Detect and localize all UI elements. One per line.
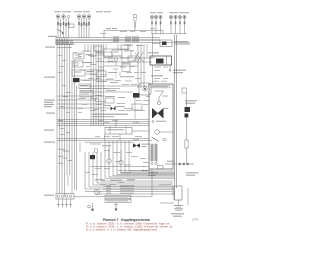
- wire tag p38: [131, 155, 138, 158]
- wire tag p10: [100, 73, 106, 76]
- wire tag p69: [100, 109, 106, 112]
- wire tag p101: [86, 79, 90, 82]
- left margin label 7: [44, 106, 52, 107]
- terminal b2: [155, 162, 157, 164]
- label strip switch: [92, 114, 128, 115]
- label y90: [106, 90, 116, 91]
- wire tag p32: [95, 135, 100, 138]
- label headlamp group left: [54, 11, 61, 12]
- wire mid bus 2: [57, 121, 149, 123]
- sender dashed: [115, 70, 117, 78]
- starter switch: [185, 114, 189, 118]
- wire tag p43: [85, 171, 90, 174]
- brush terminal: [152, 121, 154, 123]
- label tail lamps left: [150, 12, 156, 13]
- wire tag p86: [60, 65, 64, 68]
- fuse dark left: [73, 78, 80, 82]
- label strip switch2: [92, 116, 114, 117]
- wire tag p48: [140, 157, 146, 160]
- wire tag p79: [130, 30, 135, 33]
- wire tag p44: [92, 173, 98, 176]
- tail lamp unit left: [150, 15, 162, 33]
- wire tag p91: [66, 131, 70, 134]
- legend box 1: [105, 195, 131, 198]
- left margin label 4: [44, 100, 55, 101]
- headlamp unit left: [56, 15, 69, 38]
- battery lead terminal 2: [172, 188, 174, 190]
- wire stub 5: [108, 56, 110, 62]
- label instrument A: [124, 50, 134, 51]
- ground left: [88, 203, 95, 212]
- left margin label 11: [44, 195, 54, 196]
- wire tag p70: [154, 66, 161, 69]
- label warning lamp: [120, 57, 130, 58]
- label headlamp group right: [74, 11, 82, 12]
- diagonal harness 2: [134, 52, 139, 61]
- svg-text:1747: 1747: [192, 218, 199, 222]
- horn: [143, 87, 147, 91]
- wire tag p24: [98, 119, 103, 122]
- label above connector: [159, 184, 171, 185]
- small box y45: [121, 45, 128, 50]
- wire corner B4: [97, 152, 173, 183]
- wire corner B1: [85, 152, 173, 189]
- ignition switch: [105, 128, 132, 135]
- battery lead 2: [103, 188, 172, 190]
- starter motor: [185, 107, 191, 112]
- wire tag p64: [118, 109, 125, 112]
- wire tag 4: [63, 151, 69, 152]
- label right of link: [186, 172, 198, 173]
- wire tag p18: [131, 83, 137, 86]
- harness wire L1: [56, 38, 58, 193]
- label y95: [95, 95, 102, 96]
- label light switch: [87, 71, 94, 72]
- wire tag p100: [82, 79, 86, 82]
- wire stub 2: [121, 56, 123, 64]
- resistor bar 2: [155, 144, 157, 161]
- wire y74: [85, 73, 97, 75]
- label battery: [171, 213, 184, 214]
- battery lead tag 4: [106, 192, 111, 195]
- wire tag p97: [86, 65, 90, 68]
- wire ignition out: [132, 130, 149, 132]
- wire tag p57: [113, 68, 118, 71]
- wire tag p83: [62, 59, 66, 62]
- wire tag p14: [115, 79, 121, 82]
- label battery link: [167, 161, 175, 162]
- wire tag p95: [82, 103, 87, 106]
- label brush: [156, 121, 166, 122]
- wire tag p34: [96, 143, 101, 146]
- horn button: [73, 61, 83, 67]
- label y105: [103, 105, 111, 106]
- light switch: [72, 70, 85, 76]
- wire main bus 3: [55, 40, 160, 42]
- label inside box b: [164, 108, 169, 109]
- wire tag p98: [78, 55, 82, 58]
- fuse X dark: [133, 143, 140, 148]
- wire tag p84: [58, 71, 62, 74]
- warning lamp: [114, 58, 117, 61]
- wire tag p49: [143, 161, 149, 164]
- wire tag p37: [126, 151, 132, 154]
- wire corner A7: [129, 141, 175, 171]
- harness wire M4: [98, 44, 100, 126]
- wire tag p26: [112, 119, 118, 122]
- wire y96: [57, 95, 105, 97]
- label y81: [96, 81, 107, 82]
- wire tag p88: [60, 105, 65, 108]
- wire tag p6: [97, 58, 102, 61]
- label instrument lighting: [96, 11, 103, 12]
- wire tag p56: [130, 65, 135, 68]
- left margin label 6: [44, 104, 54, 105]
- label inside box a: [162, 96, 168, 97]
- wire tag p75: [152, 80, 159, 83]
- diagonal harness 1: [135, 53, 144, 62]
- wire tag 2: [58, 156, 63, 157]
- bus tag 2b: [125, 37, 131, 40]
- label fuse X: [142, 144, 149, 145]
- wire stub 13: [146, 44, 148, 58]
- label gauge B: [122, 62, 131, 63]
- wire tag 6: [68, 160, 72, 161]
- link tick 1: [179, 163, 181, 165]
- wire mid bus 3: [57, 123, 149, 125]
- wire main bus 2: [55, 38, 160, 40]
- wire tag p9: [90, 73, 95, 76]
- bus tag 1a: [113, 35, 119, 38]
- wire stub v3: [129, 44, 131, 48]
- harness wire M6: [103, 44, 105, 126]
- wire tag p45: [100, 183, 106, 186]
- small box y98: [105, 98, 114, 103]
- ground right: [114, 203, 118, 212]
- wire tag p59: [134, 71, 139, 74]
- battery lead 1: [103, 186, 172, 188]
- wire center y47: [57, 47, 72, 49]
- wire tag p1: [82, 50, 91, 53]
- left margin label 8: [46, 113, 55, 114]
- wire ignition feed 30/51: [104, 30, 163, 32]
- wire tag p87: [66, 91, 71, 94]
- label wiper ground: [173, 70, 186, 71]
- wire tag p66: [134, 109, 140, 112]
- wire center h1: [80, 85, 149, 87]
- relay small dark: [90, 155, 95, 159]
- wire tag p67: [90, 109, 95, 112]
- wire stub 12: [87, 44, 89, 52]
- wire tag p89: [66, 111, 70, 114]
- svg-text:Fr. o. m. chassinr. 1 t. o. m.: Fr. o. m. chassinr. 1 t. o. m. chassinr.…: [86, 229, 158, 232]
- wire tag p20: [99, 100, 106, 103]
- wire corner A2: [109, 141, 175, 177]
- harness wire L6: [69, 44, 71, 175]
- wire center h2: [80, 88, 120, 90]
- wire tag p53: [143, 103, 148, 106]
- wiper motor box: [150, 56, 172, 65]
- fuel gauge: [119, 150, 123, 165]
- wire stub 3: [115, 61, 117, 66]
- gauge box B: [122, 64, 130, 72]
- wire tag p102: [78, 97, 83, 100]
- wire stub 18: [109, 126, 111, 134]
- wire stub 19: [115, 120, 117, 128]
- wire stub 8: [134, 98, 136, 120]
- wire y52 ext: [95, 51, 104, 53]
- wire battery stub: [160, 202, 174, 204]
- wire low bus 1: [57, 138, 149, 140]
- terminal b1: [151, 162, 153, 164]
- wire center y66: [104, 65, 122, 67]
- wire tag p90: [60, 127, 65, 130]
- small box top-center: [94, 46, 102, 51]
- wire stub 14: [79, 142, 81, 152]
- harness wire L3: [61, 38, 63, 193]
- wire tag p80: [140, 30, 146, 33]
- wire tag p35: [104, 149, 110, 152]
- label y76: [120, 76, 134, 77]
- lighting relay: [160, 40, 172, 47]
- wire tag p78: [120, 30, 127, 33]
- wire tag 8: [63, 96, 68, 97]
- switch circle: [94, 149, 98, 153]
- battery lead terminal 4: [172, 193, 174, 195]
- wire tag p65: [126, 109, 132, 112]
- wire center y108: [57, 107, 110, 109]
- wire tag p76: [161, 80, 167, 83]
- wire tag p85: [62, 84, 66, 87]
- harness wire M1: [90, 44, 92, 126]
- harness wire M3: [95, 44, 97, 126]
- ignition coil feeds: [104, 57, 152, 59]
- wire center y70: [80, 69, 104, 71]
- wire tag p72: [154, 69, 160, 72]
- wire tag p17: [122, 83, 129, 86]
- flasher unit: [133, 14, 137, 30]
- wire corner B3: [93, 152, 173, 185]
- wire low bus 3: [85, 141, 133, 143]
- turn indicator arrow: [57, 29, 64, 35]
- clock: [94, 189, 99, 194]
- wire tag 7: [58, 120, 63, 121]
- wire tag p22: [124, 107, 133, 110]
- wire riser right: [162, 31, 164, 34]
- label lighting relay: [175, 41, 188, 42]
- cutout funnel: [155, 91, 164, 105]
- wire tag p73: [154, 77, 160, 80]
- wire y56: [104, 55, 122, 57]
- wire stub v2: [117, 44, 119, 50]
- spark plugs: [57, 199, 72, 208]
- label ammeter: [102, 145, 111, 146]
- wire main bus 4: [55, 41, 190, 43]
- wire tag p23: [93, 108, 99, 111]
- wire tag p74: [163, 77, 168, 80]
- wire tag p58: [126, 71, 132, 74]
- resistor bar 1: [151, 144, 153, 161]
- harness wire M5: [100, 44, 102, 126]
- field winding bowtie: [152, 108, 164, 119]
- wire tag p42: [104, 167, 110, 170]
- wire relay feed: [153, 43, 161, 45]
- label plate 1: [79, 84, 90, 89]
- wire mid link2: [118, 170, 150, 171]
- label y72: [108, 72, 117, 73]
- wire tag p28: [135, 135, 142, 138]
- dip switch: [73, 53, 84, 59]
- trunk wire 1: [174, 35, 176, 200]
- instrument box mid: [96, 52, 112, 57]
- junction box between headlamps: [69, 24, 74, 28]
- wire corner A6: [125, 141, 175, 172]
- wire tag p46: [109, 183, 116, 186]
- wire stub 20: [67, 175, 69, 186]
- wire tail lamp bus: [151, 33, 187, 35]
- harness wire L9: [76, 86, 78, 190]
- wire center y100: [57, 99, 96, 101]
- bus tag 3b: [125, 39, 131, 42]
- wire starter lead: [186, 93, 188, 107]
- wire tag p5: [90, 55, 95, 58]
- wire stub 1: [103, 48, 105, 53]
- wire stub 10: [111, 56, 113, 62]
- wire corner B5: [101, 152, 173, 181]
- harness wire R2: [140, 44, 142, 88]
- battery: [174, 200, 183, 211]
- wire tag p11: [88, 77, 94, 80]
- wire y92: [80, 91, 133, 93]
- wire stub 21: [64, 193, 66, 197]
- wire tag p55: [120, 66, 126, 69]
- wire tag p31: [112, 135, 119, 138]
- link tick 2: [183, 163, 185, 165]
- wire y47 ext: [104, 48, 130, 50]
- wire tag p27: [133, 121, 139, 124]
- wire corner A1: [105, 141, 175, 178]
- bus tag 1b: [125, 35, 131, 38]
- distributor housing: [56, 194, 74, 200]
- label starter: [185, 100, 197, 101]
- instrument box A: [112, 50, 122, 56]
- wire corner B2: [89, 152, 173, 187]
- battery lead tag 1: [106, 185, 111, 188]
- wire tag p50: [142, 165, 149, 168]
- wire tag p39: [115, 160, 121, 163]
- gauge box C: [132, 104, 142, 110]
- legend box 2: [105, 199, 131, 202]
- wire tag p51: [136, 99, 141, 102]
- indicator circle: [95, 98, 98, 101]
- wire stub 4: [96, 77, 98, 81]
- relay coil oval: [163, 138, 167, 140]
- wire tag p19: [90, 97, 96, 100]
- harness wire L4: [64, 38, 66, 193]
- wire tag p52: [143, 99, 149, 102]
- label dip switch: [86, 54, 93, 55]
- trunk wire 2: [176, 35, 178, 188]
- wire tag p21: [117, 102, 125, 105]
- battery lead tag 2: [106, 187, 111, 190]
- label tail lamps right: [169, 12, 178, 13]
- fuse holder: [182, 88, 187, 93]
- wire tag p40: [124, 164, 131, 167]
- diagonal harness 3: [137, 52, 143, 63]
- label row y61: [96, 61, 104, 62]
- label row y45: [124, 45, 133, 46]
- wire tag p82: [58, 54, 62, 57]
- wire stub 16: [119, 134, 121, 141]
- label mid link: [120, 172, 131, 173]
- wire stub 9: [119, 72, 121, 77]
- harness wire L2: [59, 38, 61, 193]
- left margin label 5: [44, 102, 53, 103]
- left margin label 1: [48, 36, 57, 37]
- harness wire L8: [74, 60, 76, 190]
- bus tag 3a: [113, 39, 119, 42]
- wire wiper ground: [169, 65, 171, 72]
- cutout relay arm: [152, 137, 160, 142]
- wire tag p8: [98, 66, 104, 69]
- wire battery link: [165, 163, 194, 165]
- wire tag p29: [133, 138, 139, 141]
- wire tag p61: [96, 87, 101, 90]
- wire tag 1: [58, 149, 65, 150]
- link tick 3: [187, 163, 189, 165]
- wire tag p60: [140, 71, 146, 74]
- wire mid link: [90, 166, 145, 168]
- label inside box top: [151, 85, 170, 88]
- label horn button: [85, 62, 93, 63]
- battery lead 3: [85, 191, 172, 193]
- fuse bowtie small: [111, 107, 116, 111]
- wire stub 11: [84, 44, 86, 52]
- wire tag p12: [96, 77, 101, 80]
- wire tag p15: [125, 80, 132, 83]
- wire tag p2: [73, 51, 77, 54]
- wire tag p62: [104, 87, 110, 90]
- terminal block: [158, 166, 164, 169]
- label under box: [148, 172, 158, 173]
- bus tag 2a: [113, 37, 119, 40]
- wire tag p93: [78, 107, 83, 110]
- wire to battery link: [186, 148, 188, 164]
- wire tag p103: [82, 97, 86, 100]
- wire tag p7: [90, 63, 96, 66]
- battery lead 4: [95, 193, 172, 195]
- wire tag p71: [163, 66, 168, 69]
- wire regulator drop: [151, 169, 153, 197]
- wire tag 5: [63, 158, 67, 159]
- distributor contacts: [57, 195, 72, 198]
- wire stub 7: [130, 50, 132, 58]
- wire tag p63: [96, 103, 101, 106]
- battery lead terminal 3: [172, 191, 174, 193]
- wire distributor main: [74, 196, 152, 198]
- wire stub 15: [104, 134, 106, 141]
- left margin label 2: [45, 47, 55, 48]
- wire tag p92: [60, 133, 65, 136]
- wire y80: [80, 79, 115, 81]
- label generator: [151, 75, 163, 76]
- wire tag p25: [104, 121, 109, 124]
- horn rounded box: [139, 83, 151, 95]
- left margin label 10: [44, 142, 55, 143]
- left margin label 3: [44, 77, 55, 78]
- wire stub v1: [105, 44, 107, 50]
- wire y66 ext: [122, 65, 138, 67]
